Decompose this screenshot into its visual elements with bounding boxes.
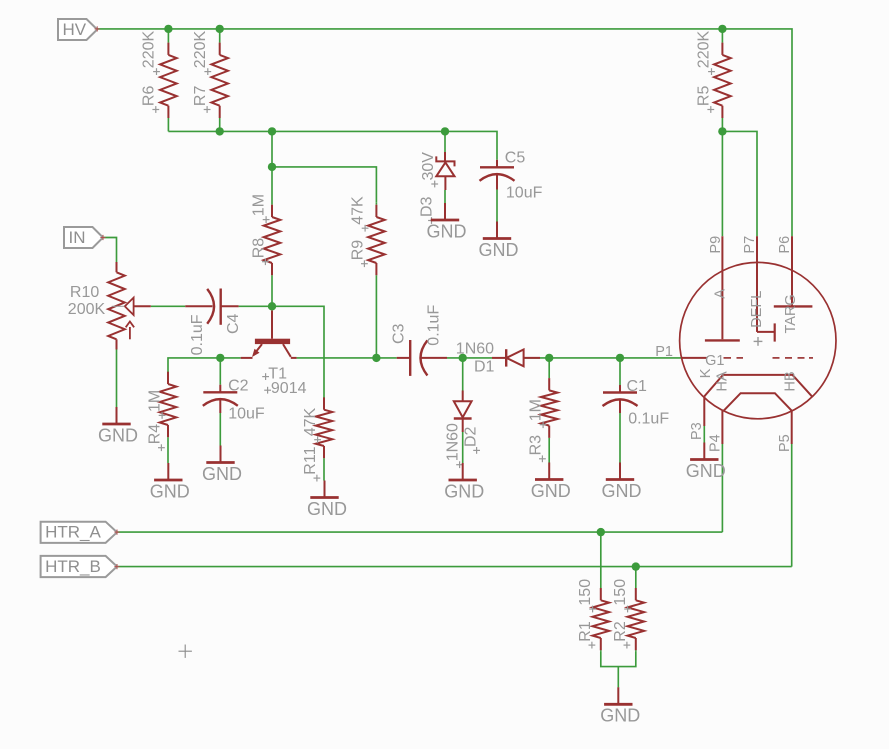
wire HV rail bbox=[97, 29, 792, 236]
pin label P1 bbox=[655, 344, 673, 360]
wire R5 node to P7 bbox=[722, 131, 757, 236]
svg-text:10uF: 10uF bbox=[228, 405, 265, 422]
svg-text:0.1uF: 0.1uF bbox=[426, 305, 443, 346]
node junction 4 bbox=[216, 127, 224, 135]
resistor R6 220K bbox=[141, 29, 177, 131]
wire collector rail bbox=[297, 357, 397, 359]
resistor R8 1M bbox=[250, 167, 280, 306]
transistor T1 9014 bbox=[241, 311, 307, 397]
net flag HTR_B bbox=[41, 556, 117, 577]
svg-text:1M: 1M bbox=[527, 399, 544, 421]
node junction 1 bbox=[164, 25, 172, 33]
diode D1 1N60 bbox=[456, 340, 540, 375]
wire R5 node to P9 bbox=[721, 131, 723, 236]
ground for R11 bbox=[307, 481, 347, 519]
node junction 7 bbox=[718, 127, 726, 135]
svg-text:220K: 220K bbox=[192, 31, 209, 69]
node junction 8 bbox=[268, 163, 276, 171]
svg-text:0.1uF: 0.1uF bbox=[189, 314, 206, 355]
flag tip mark HTR_A bbox=[114, 530, 119, 535]
svg-text:GND: GND bbox=[427, 221, 467, 241]
svg-text:GND: GND bbox=[202, 464, 242, 484]
svg-text:G1: G1 bbox=[705, 353, 724, 369]
svg-text:9014: 9014 bbox=[271, 380, 307, 397]
svg-text:47K: 47K bbox=[302, 408, 319, 437]
node junction 16 bbox=[632, 562, 640, 570]
svg-text:A: A bbox=[713, 289, 729, 299]
capacitor C3 0.1uF bbox=[390, 305, 447, 376]
svg-text:R6: R6 bbox=[141, 86, 158, 107]
wire IN to R10 bbox=[103, 238, 117, 263]
zener diode D3 30V bbox=[418, 131, 454, 224]
svg-text:30V: 30V bbox=[420, 152, 437, 181]
net flag HV bbox=[58, 19, 97, 40]
tube pin P5 bbox=[777, 411, 793, 452]
svg-text:GND: GND bbox=[444, 481, 484, 501]
node junction 10 bbox=[216, 354, 224, 362]
svg-text:150: 150 bbox=[577, 579, 594, 606]
svg-text:1M: 1M bbox=[146, 390, 163, 412]
svg-text:K: K bbox=[698, 368, 714, 378]
svg-text:HTR_B: HTR_B bbox=[45, 557, 101, 576]
svg-text:10uF: 10uF bbox=[506, 185, 543, 202]
svg-text:HA: HA bbox=[715, 371, 731, 391]
svg-text:P4: P4 bbox=[707, 434, 723, 452]
svg-text:47K: 47K bbox=[349, 196, 366, 225]
svg-text:P6: P6 bbox=[777, 236, 793, 254]
node junction 3 bbox=[718, 25, 726, 33]
ground for C1 bbox=[602, 463, 642, 501]
svg-text:1M: 1M bbox=[250, 194, 267, 216]
svg-text:P9: P9 bbox=[708, 236, 724, 254]
svg-text:R11: R11 bbox=[302, 446, 319, 474]
capacitor C1 0.1uF bbox=[603, 358, 670, 463]
svg-text:R10: R10 bbox=[70, 284, 99, 301]
flag tip mark HV bbox=[95, 26, 100, 31]
wire C3 to D1 node bbox=[447, 357, 492, 359]
tube pin P4 bbox=[707, 411, 723, 452]
capacitor C4 0.1uF bbox=[185, 289, 241, 356]
node junction 12 bbox=[459, 354, 467, 362]
svg-text:DEFL: DEFL bbox=[749, 291, 765, 328]
svg-text:150: 150 bbox=[612, 579, 629, 606]
capacitor C5 10uF bbox=[480, 149, 543, 221]
flag tip mark HTR_B bbox=[114, 564, 119, 569]
svg-text:GND: GND bbox=[531, 481, 571, 501]
wire wiper to C4 bbox=[151, 305, 186, 307]
svg-text:R3: R3 bbox=[527, 435, 544, 456]
svg-text:C1: C1 bbox=[627, 378, 648, 395]
resistor R11 47K bbox=[302, 397, 333, 481]
wire D1 to tube K bbox=[524, 357, 682, 359]
svg-text:C5: C5 bbox=[505, 149, 526, 166]
svg-text:R4: R4 bbox=[146, 424, 163, 445]
wire HTR_B bbox=[117, 566, 792, 568]
svg-text:P5: P5 bbox=[777, 434, 793, 452]
resistor R3 1M bbox=[527, 358, 557, 463]
node junction 15 bbox=[597, 528, 605, 536]
node junction 6 bbox=[441, 127, 449, 135]
svg-text:C3: C3 bbox=[390, 323, 407, 344]
tube deflection pin P7 bbox=[749, 236, 775, 346]
tube target pin P6 bbox=[774, 236, 813, 333]
ground for D3 bbox=[427, 203, 467, 241]
ground for R1 R2 bbox=[600, 687, 640, 725]
cursor crosshair bbox=[179, 645, 192, 658]
svg-text:R7: R7 bbox=[192, 86, 209, 107]
pin label P7 bbox=[742, 236, 758, 254]
node junction 5 bbox=[268, 127, 276, 135]
ground for C2 bbox=[202, 446, 242, 484]
wire R1-R2 bottom bbox=[601, 651, 636, 666]
resistor R7 220K bbox=[192, 29, 228, 131]
tube envelope bbox=[680, 262, 836, 418]
svg-text:C2: C2 bbox=[228, 378, 249, 395]
node junction 13 bbox=[545, 354, 553, 362]
svg-text:P1: P1 bbox=[655, 344, 673, 360]
svg-text:R8: R8 bbox=[250, 238, 267, 259]
ground for P3 bbox=[686, 443, 726, 481]
ground for D2 bbox=[444, 463, 484, 501]
wire rail3 to R9 bbox=[272, 167, 376, 202]
svg-text:1N60: 1N60 bbox=[445, 423, 462, 461]
flag tip mark IN bbox=[100, 235, 105, 240]
svg-text:220K: 220K bbox=[696, 31, 713, 69]
node junction 2 bbox=[216, 25, 224, 33]
node junction 14 bbox=[616, 354, 624, 362]
svg-text:GND: GND bbox=[307, 499, 347, 519]
svg-text:TARG: TARG bbox=[783, 294, 799, 333]
svg-text:GND: GND bbox=[600, 706, 640, 726]
svg-text:C4: C4 bbox=[225, 313, 242, 334]
wire rail2 to C5 bbox=[168, 131, 497, 159]
ground for R10 bbox=[98, 407, 138, 445]
tube heater lower bbox=[724, 393, 792, 411]
svg-text:R2: R2 bbox=[612, 621, 629, 642]
svg-text:R5: R5 bbox=[696, 86, 713, 107]
svg-text:0.1uF: 0.1uF bbox=[628, 410, 669, 427]
svg-text:P7: P7 bbox=[742, 236, 758, 254]
svg-text:R9: R9 bbox=[349, 240, 366, 261]
net flag IN bbox=[64, 227, 103, 248]
tube pin P3 bbox=[689, 396, 705, 442]
pin label P9 bbox=[708, 236, 724, 254]
resistor R5 220K bbox=[696, 29, 731, 131]
svg-text:200K: 200K bbox=[68, 301, 106, 318]
tube anode pin P9 bbox=[705, 236, 740, 340]
wire emitter rail bbox=[168, 358, 241, 373]
wire P5 drop bbox=[791, 444, 793, 567]
net flag HTR_A bbox=[41, 522, 117, 543]
svg-text:GND: GND bbox=[602, 481, 642, 501]
capacitor C2 10uF bbox=[203, 358, 265, 446]
svg-text:GND: GND bbox=[479, 240, 519, 260]
resistor R2 150 bbox=[612, 567, 644, 652]
svg-text:D2: D2 bbox=[462, 426, 479, 447]
wire C4 to base node bbox=[239, 305, 272, 307]
pin label P6 bbox=[777, 236, 793, 254]
wire P4 drop bbox=[721, 444, 723, 532]
diode D2 1N60 bbox=[445, 358, 480, 468]
svg-text:P3: P3 bbox=[689, 422, 705, 440]
svg-text:D3: D3 bbox=[418, 196, 435, 217]
tube heater upper bbox=[704, 371, 812, 397]
ground for R4 bbox=[150, 463, 190, 501]
svg-text:HV: HV bbox=[63, 20, 87, 39]
svg-text:220K: 220K bbox=[141, 31, 158, 69]
potentiometer R10 200K bbox=[68, 262, 151, 407]
svg-text:GND: GND bbox=[98, 425, 138, 445]
svg-text:HB: HB bbox=[783, 371, 799, 391]
svg-text:R1: R1 bbox=[577, 621, 594, 642]
resistor R4 1M bbox=[146, 372, 176, 463]
svg-text:IN: IN bbox=[69, 228, 86, 247]
wire HTR_A bbox=[117, 531, 722, 533]
wire R6-R7 vertical drop bbox=[271, 131, 273, 167]
wire bottom GND drop bbox=[617, 667, 619, 688]
node junction 11 bbox=[372, 354, 380, 362]
tube cathode/grid pin P1 bbox=[681, 353, 724, 378]
wire base node to R11 bbox=[272, 306, 324, 397]
svg-text:HTR_A: HTR_A bbox=[45, 523, 101, 542]
tube grid dashes bbox=[724, 357, 814, 359]
resistor R1 150 bbox=[577, 532, 609, 651]
svg-text:GND: GND bbox=[150, 481, 190, 501]
svg-text:GND: GND bbox=[686, 461, 726, 481]
ground for R3 bbox=[531, 463, 571, 501]
svg-text:D1: D1 bbox=[474, 359, 495, 376]
resistor R9 47K bbox=[349, 196, 384, 358]
node junction 9 bbox=[268, 302, 276, 310]
ground for C5 bbox=[479, 222, 519, 260]
